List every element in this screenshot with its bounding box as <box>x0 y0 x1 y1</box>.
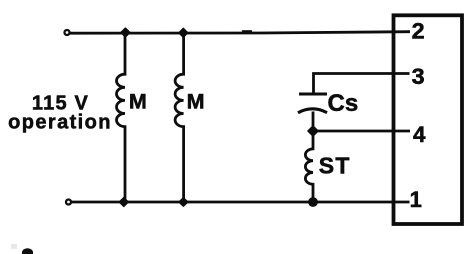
svg-text:M: M <box>187 90 205 114</box>
svg-text:M: M <box>129 90 147 114</box>
svg-text:ST: ST <box>319 153 351 179</box>
svg-text:3: 3 <box>412 64 425 89</box>
svg-text:1: 1 <box>410 187 422 212</box>
svg-text:operation: operation <box>8 112 112 134</box>
svg-text:4: 4 <box>413 122 426 147</box>
svg-text:Cs: Cs <box>328 90 359 117</box>
svg-text:2: 2 <box>412 19 425 44</box>
